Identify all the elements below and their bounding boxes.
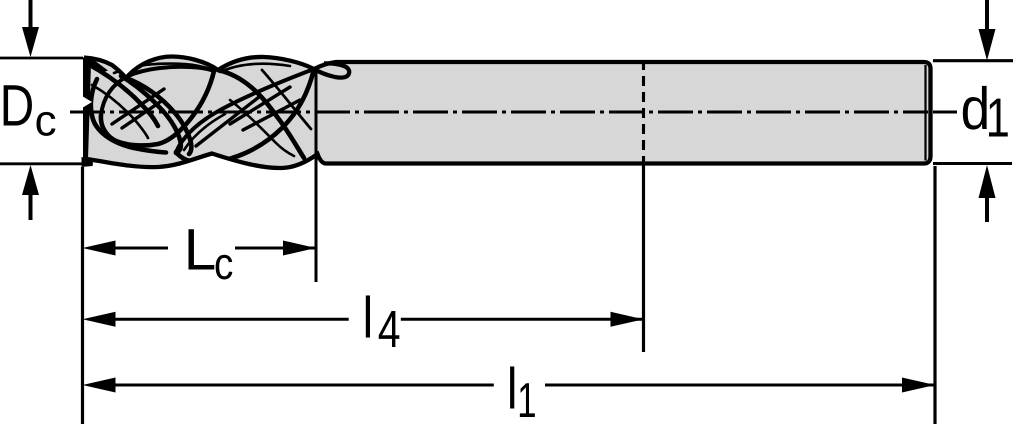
Dc top arrow (22, 0, 39, 57)
label Dc (4, 85, 56, 136)
leaf I lower edge (101, 71, 214, 145)
Dc top extension line (0, 57, 83, 60)
label Lc - c subscript (216, 255, 233, 280)
face notch (82, 96, 92, 108)
leaf I upper edge (101, 67, 214, 115)
label l4 - l (366, 295, 370, 337)
tool outline (84, 57, 931, 169)
sweep a0 rounding near left face (91, 79, 166, 153)
label l1 - l (510, 366, 514, 408)
bottom-left corner blob (82, 157, 93, 167)
d1 top extension line (933, 59, 1013, 62)
d1 bottom arrow (979, 165, 996, 222)
Lc right extension line (315, 69, 318, 282)
thin companion lines (92, 63, 311, 156)
label d1 - 1 subscript (989, 99, 1008, 137)
sweep a3 from cusp2 (218, 70, 304, 158)
l1 right extension line (933, 166, 936, 424)
d1 bottom extension line (933, 162, 1012, 165)
label l1 (510, 366, 535, 417)
corner fill wedge (84, 57, 108, 73)
l4 dimension line (83, 312, 644, 327)
Dc bottom extension line (0, 162, 83, 165)
label Dc - D (4, 85, 32, 125)
label l1 - 1 subscript (520, 383, 535, 417)
centerline dash-dot (70, 111, 928, 114)
shank end inner chamfer line (924, 65, 926, 161)
thick back-sweep curves (84, 57, 314, 163)
tool body fill (84, 57, 931, 169)
leaf II lower edge (176, 69, 314, 163)
sweep a1 from left corner (88, 64, 158, 126)
left extension line (Lc/l4/l1) (81, 167, 84, 424)
label d1 (963, 86, 1008, 137)
straight flash lines (112, 87, 300, 146)
label Dc - c subscript (36, 112, 55, 136)
sweep a2 inner (121, 76, 181, 153)
Dc bottom arrow (22, 165, 39, 220)
sweep a2 outer (126, 78, 191, 154)
dashed line l4 through shank (642, 60, 645, 164)
flute detail strokes (clipped to body) (84, 57, 314, 163)
l4 extension line below (642, 164, 645, 353)
flute end curl at shank (314, 63, 349, 77)
label d1 - d (963, 86, 987, 130)
left face of cutter (83, 57, 91, 162)
Lc dimension line (83, 241, 317, 256)
label l4 - 4 subscript (379, 311, 400, 347)
label Lc (189, 229, 233, 279)
label Lc - L (189, 229, 215, 269)
l1 dimension line (83, 378, 936, 393)
d1 top arrow (979, 0, 996, 61)
label l4 (366, 295, 400, 347)
leaf II upper edge (176, 69, 314, 152)
